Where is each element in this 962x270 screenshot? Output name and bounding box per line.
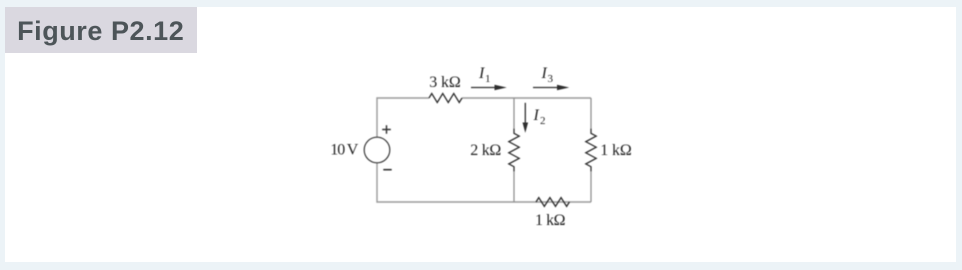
svg-text:10 V: 10 V bbox=[330, 141, 358, 158]
resistor R2 2k vertical zigzag bbox=[509, 129, 519, 172]
resistor R3 1k vertical zigzag bbox=[586, 129, 596, 172]
svg-text:1 kΩ: 1 kΩ bbox=[600, 142, 632, 159]
wire middle branch top bbox=[513, 98, 515, 129]
svg-text:1 kΩ: 1 kΩ bbox=[535, 212, 566, 229]
current arrow I3 bbox=[533, 87, 558, 89]
plus sign bbox=[382, 125, 391, 134]
svg-text:2: 2 bbox=[540, 115, 546, 127]
voltage source V1 circle bbox=[364, 137, 390, 163]
current arrow I1 bbox=[471, 87, 496, 89]
svg-text:I: I bbox=[533, 107, 540, 124]
minus sign bbox=[383, 169, 391, 171]
svg-text:1: 1 bbox=[485, 73, 491, 85]
wire right branch bottom bbox=[590, 171, 592, 202]
wire top-middle segment bbox=[462, 97, 591, 99]
wire left-bottom segment bbox=[377, 163, 591, 202]
svg-text:2 kΩ: 2 kΩ bbox=[470, 142, 501, 159]
resistor R4 1k bottom zigzag bbox=[536, 198, 569, 207]
svg-text:I: I bbox=[541, 65, 548, 82]
resistor R1 3k zigzag bbox=[429, 94, 462, 103]
wire right branch top bbox=[590, 98, 592, 129]
svg-text:3 kΩ: 3 kΩ bbox=[429, 74, 461, 91]
current arrow I2 bbox=[524, 103, 526, 125]
wire middle branch bottom bbox=[513, 171, 515, 202]
svg-text:I: I bbox=[478, 65, 485, 82]
wire top-left segment bbox=[377, 98, 429, 137]
svg-text:3: 3 bbox=[548, 73, 554, 85]
